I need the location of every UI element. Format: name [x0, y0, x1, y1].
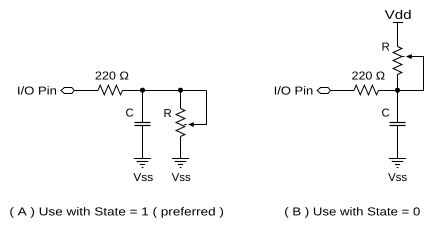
wire: junction down to capacitor C (B): [397, 91, 399, 123]
caption B: [285, 207, 420, 218]
resistor R (B) vertical zigzag: [393, 47, 402, 75]
wiper loop wire (B): across and down to junction: [398, 57, 424, 91]
wire: capacitor C to ground (B): [397, 126, 399, 159]
value label 220 ohm B: [352, 71, 384, 79]
wire: resistor to junction B: [379, 90, 398, 92]
wire: junction A2 down to resistor R (A): [180, 91, 182, 109]
node I/O Pin (label B): [275, 86, 312, 94]
wire: capacitor C to ground (A): [142, 126, 144, 159]
I/O pin terminal A (hexagonal pad): [61, 88, 74, 94]
wiper loop wire (A): corner down and across: [194, 91, 207, 125]
caption A: [10, 207, 223, 218]
ground symbol A1 (Vss): [134, 159, 151, 168]
resistor 220 ohm B (zigzag): [354, 85, 379, 95]
label R (B): [382, 43, 389, 51]
net label Vss (A2): [172, 173, 191, 181]
capacitor C (B) plates: [390, 122, 406, 124]
wiper arrow (A): [188, 122, 194, 127]
net label Vdd: [385, 10, 411, 19]
ground symbol B (Vss): [389, 159, 406, 168]
resistor 220 ohm A (zigzag): [98, 85, 123, 95]
junction node A2 (to resistor R): [178, 88, 183, 93]
junction node A1 (to capacitor C): [140, 88, 145, 93]
wire: terminal to resistor R220 A: [74, 90, 98, 92]
capacitor C (A) plates: [135, 122, 151, 124]
net label Vss (A1): [133, 173, 152, 181]
wire: resistor R to ground (A): [180, 137, 182, 159]
junction node B: [395, 88, 400, 93]
wire: terminal to resistor R220 B: [330, 90, 354, 92]
label C (A): [126, 108, 133, 116]
label R (A): [164, 109, 171, 117]
wiper arrow (B): [406, 54, 412, 59]
value label 220 ohm A: [96, 71, 129, 79]
wire: junction A1 down to capacitor C: [142, 91, 144, 123]
wire: resistor to loop corner (through both junctions) A: [123, 90, 207, 92]
wire: Vdd bar down to resistor R (B): [397, 23, 399, 47]
wire: resistor R to junction (B): [397, 75, 399, 91]
resistor R (A) vertical zigzag: [176, 109, 185, 137]
label C (B): [382, 108, 389, 116]
node I/O Pin (label A): [18, 86, 56, 94]
power symbol Vdd (bar): [393, 22, 403, 24]
ground symbol A2 (Vss): [172, 159, 189, 168]
net label Vss (B): [388, 173, 407, 181]
I/O pin terminal B (hexagonal pad): [317, 88, 330, 94]
